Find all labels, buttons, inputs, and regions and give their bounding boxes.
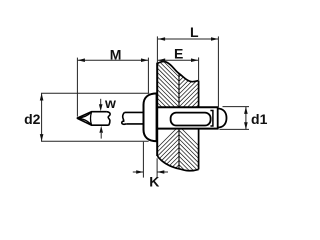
M left extension line (to mandrel tip) — [76, 58, 78, 117]
d1 top extension line — [223, 106, 250, 108]
dimension d2 — [40, 93, 150, 141]
E right extension line — [198, 57, 200, 80]
L/E left extension line (workpiece face) — [156, 36, 158, 62]
svg-text:d1: d1 — [251, 111, 268, 127]
rivet body (tube) — [157, 107, 218, 128]
d2 top extension line — [41, 92, 149, 94]
K right extension line (workpiece face) — [156, 158, 158, 177]
hatching lower-right plate — [179, 126, 199, 189]
d1 bottom extension line — [220, 128, 250, 130]
workpiece lower block outline (left edge bottom, wave bottom, right edge, joint) — [157, 129, 198, 171]
mandrel head dome at rivet end — [218, 109, 227, 128]
K left extension line (flange face) — [142, 142, 144, 178]
rivet flange (domed head) — [144, 93, 157, 141]
workpiece left face / flange right face vertical — [156, 63, 158, 156]
mandrel stem (between flange and break) — [122, 112, 144, 124]
dimension K — [133, 142, 168, 178]
hatching upper-right plate — [179, 44, 199, 128]
M right extension line (to flange) — [147, 58, 149, 94]
mandrel tip (broken-off piece) — [77, 112, 110, 126]
dimension E — [158, 57, 199, 80]
dimension M — [77, 58, 148, 117]
svg-text:w: w — [104, 95, 116, 111]
mandrel stem inside body (slot outline) — [171, 113, 211, 126]
hatching upper-left plate — [157, 42, 179, 128]
L right extension line (rivet end) — [217, 36, 219, 107]
stem break line — [122, 112, 126, 124]
dimension d1 — [220, 107, 250, 130]
d2 bottom extension line — [41, 140, 149, 142]
hatching lower-left plate — [157, 126, 179, 191]
workpiece upper block outline (break-line wave top, right edge, joint) — [157, 62, 198, 108]
svg-text:E: E — [174, 45, 183, 61]
svg-text:K: K — [149, 173, 159, 189]
svg-text:M: M — [110, 46, 122, 62]
svg-text:d2: d2 — [24, 111, 41, 127]
tip break line — [107, 112, 111, 126]
svg-text:L: L — [190, 24, 199, 40]
dimension L — [157, 36, 218, 107]
tip facet curves — [77, 112, 91, 118]
mandrel head back face bracket — [210, 111, 213, 127]
dimension w — [99, 99, 103, 139]
